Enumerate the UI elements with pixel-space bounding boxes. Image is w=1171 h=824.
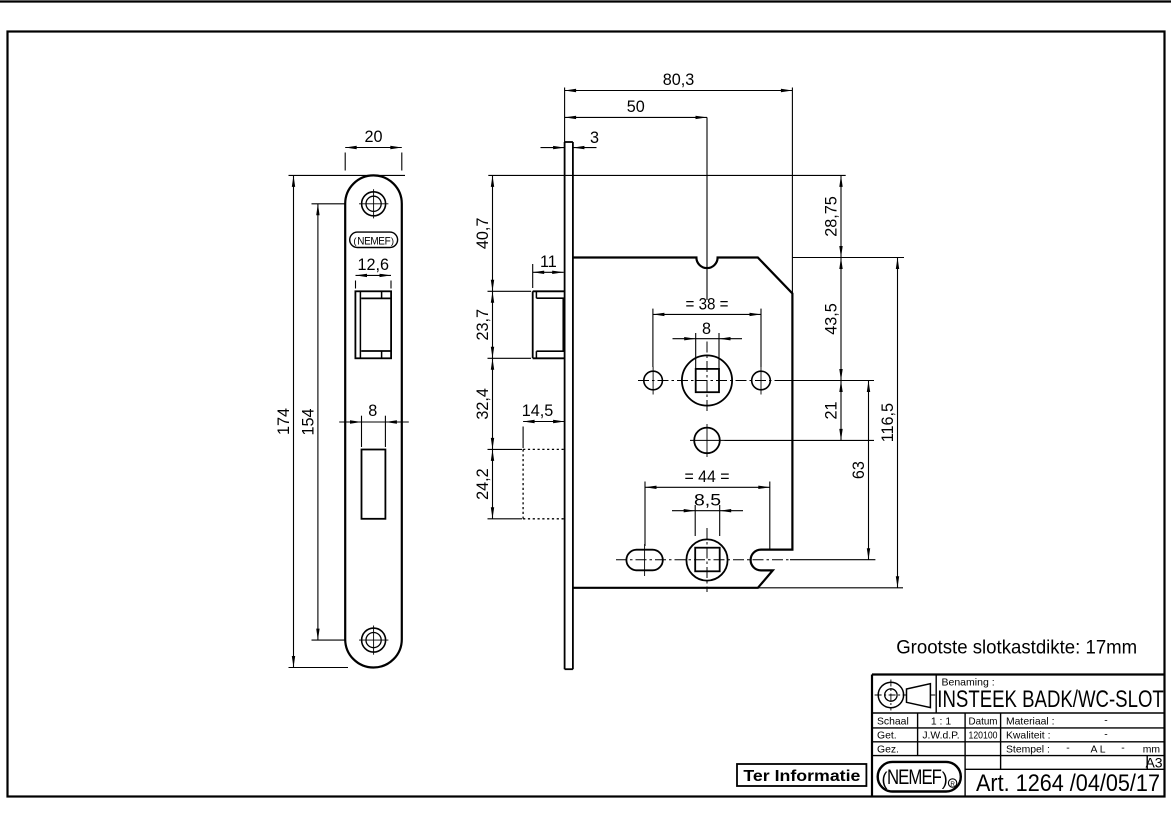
svg-text:A3: A3 [1145, 755, 1162, 771]
svg-text:63: 63 [850, 461, 868, 479]
svg-text:50: 50 [627, 98, 645, 116]
svg-text:80,3: 80,3 [663, 71, 695, 89]
svg-text:3: 3 [590, 129, 599, 147]
svg-text:28,75: 28,75 [823, 196, 841, 237]
svg-text:INSTEEK BADK/WC-SLOT: INSTEEK BADK/WC-SLOT [937, 686, 1164, 713]
svg-text:-: - [1066, 743, 1069, 754]
svg-text:Kwaliteit :: Kwaliteit : [1006, 731, 1050, 742]
svg-text:-: - [1104, 716, 1107, 727]
svg-text:40,7: 40,7 [474, 218, 492, 250]
svg-text:43,5: 43,5 [823, 303, 841, 335]
svg-text:174: 174 [275, 408, 293, 435]
svg-text:A L: A L [1090, 744, 1105, 755]
svg-text:Stempel :: Stempel : [1006, 744, 1050, 755]
svg-text:NEMEF: NEMEF [887, 765, 942, 789]
svg-text:8: 8 [368, 402, 377, 420]
svg-text:Schaal: Schaal [877, 717, 909, 728]
svg-text:12,6: 12,6 [357, 256, 389, 274]
svg-text:Art. 1264 /04/05/17: Art. 1264 /04/05/17 [976, 770, 1160, 797]
svg-text:-: - [1121, 743, 1124, 754]
svg-text:= 38 =: = 38 = [686, 295, 729, 313]
svg-text:-: - [1104, 729, 1107, 740]
svg-text:154: 154 [299, 408, 317, 435]
svg-text:24,2: 24,2 [474, 468, 492, 500]
svg-text:23,7: 23,7 [474, 309, 492, 341]
svg-text:= 44 =: = 44 = [685, 468, 730, 486]
svg-text:J.W.d.P.: J.W.d.P. [922, 731, 959, 742]
svg-text:): ) [942, 769, 948, 789]
svg-text:116,5: 116,5 [879, 403, 897, 442]
svg-text:14,5: 14,5 [522, 402, 554, 420]
svg-text:Grootste slotkastdikte: 17mm: Grootste slotkastdikte: 17mm [896, 638, 1137, 659]
svg-text:20: 20 [364, 128, 382, 146]
svg-text:8: 8 [702, 320, 711, 338]
svg-text:): ) [391, 236, 394, 247]
svg-text:Materiaal :: Materiaal : [1006, 717, 1055, 728]
svg-text:(: ( [882, 769, 888, 789]
svg-text:Get.: Get. [877, 731, 897, 742]
svg-text:Gez.: Gez. [877, 744, 899, 755]
svg-text:NEMEF: NEMEF [357, 235, 391, 247]
svg-text:8,5: 8,5 [694, 492, 721, 510]
svg-text:120100: 120100 [969, 731, 998, 742]
svg-text:Datum: Datum [969, 717, 998, 728]
svg-text:1 : 1: 1 : 1 [931, 717, 951, 728]
svg-text:Ter Informatie: Ter Informatie [743, 768, 860, 785]
svg-text:21: 21 [823, 401, 841, 419]
svg-text:11: 11 [540, 253, 557, 271]
svg-text:R: R [950, 781, 955, 788]
svg-text:32,4: 32,4 [474, 388, 492, 420]
